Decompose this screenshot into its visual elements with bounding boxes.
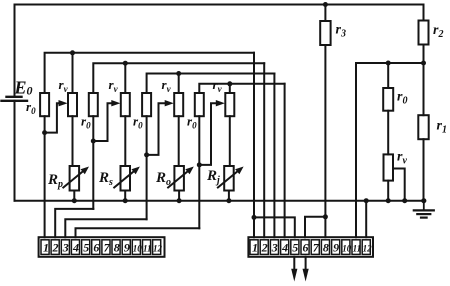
node: ground junction — [421, 198, 426, 203]
node: tap section4 — [197, 162, 202, 167]
wire: r0right to rvright — [387, 111, 389, 155]
wire: rvright bottom — [387, 181, 389, 201]
wire: section1 column to block1 cell1 — [44, 133, 46, 238]
battery E0 short bar — [7, 96, 22, 98]
svg-text:8: 8 — [323, 241, 329, 255]
wire: r1 top — [423, 63, 425, 115]
resistor Ro — [174, 166, 184, 191]
arrow: Rj variable — [218, 170, 239, 188]
wire: rv2 bottom to Rs — [124, 116, 126, 166]
wire: block2 cell3 drop — [273, 74, 275, 238]
arrow: Rp variable — [63, 170, 84, 188]
svg-text:r3: r3 — [336, 23, 346, 40]
wire: rv2 top — [124, 63, 126, 93]
svg-text:10: 10 — [342, 244, 352, 254]
svg-text:Ro: Ro — [155, 170, 171, 188]
resistor r1 — [418, 115, 428, 139]
node: Rs-rail — [123, 198, 128, 203]
node: tap section3 — [144, 152, 149, 157]
arrow: wiper section3 — [165, 100, 174, 106]
resistor r0 section1 — [40, 93, 49, 116]
wire: top rail — [15, 4, 424, 6]
svg-text:4: 4 — [281, 241, 288, 255]
wire: block2 cell4 drop — [284, 84, 286, 237]
wire: battery column upper — [14, 5, 16, 96]
resistor r0 right — [383, 88, 393, 111]
wire: rv3 bottom to Ro — [178, 116, 180, 166]
wire: r3 bottom long drop — [324, 45, 326, 237]
svg-text:5: 5 — [292, 241, 298, 255]
node: block2 cell12 rail junction — [364, 198, 369, 203]
wire: tap section2 riser — [93, 103, 113, 141]
wire: section4 column down — [198, 165, 200, 228]
wire: rv3 top — [178, 74, 180, 94]
wire: right horizontal — [356, 62, 424, 64]
node: r3 cell6 branch — [323, 214, 328, 219]
wire: tap section3 riser — [147, 103, 167, 155]
terminal block 2 outline — [248, 237, 373, 257]
terminal block 2 cells — [250, 240, 370, 255]
wire: feed 2 horizontal — [93, 63, 264, 93]
wire: r0right top — [387, 63, 389, 88]
node: tap section2 — [91, 139, 96, 144]
wire: block1 cell4 jog — [76, 228, 200, 237]
svg-text:3: 3 — [271, 241, 278, 255]
numbers block2 — [252, 241, 372, 255]
svg-text:7: 7 — [313, 241, 320, 255]
wire: feed 1 horizontal — [45, 53, 254, 93]
svg-text:7: 7 — [104, 241, 111, 255]
wire: feed 3 horizontal — [147, 74, 275, 94]
wire: Rp bottom — [73, 191, 75, 201]
wire: section3 column down — [146, 155, 148, 219]
svg-text:rv: rv — [162, 77, 172, 94]
wire: section2 column down — [92, 141, 94, 209]
resistor rv section1 — [68, 93, 77, 116]
node: Rj-rail — [226, 198, 231, 203]
resistor rv section3 — [174, 93, 183, 116]
svg-text:r1: r1 — [437, 119, 447, 136]
wire: rv4 top — [229, 84, 231, 93]
wire: block2 cell12 drop — [365, 201, 367, 238]
svg-text:Rp: Rp — [47, 172, 63, 190]
svg-text:12: 12 — [363, 244, 373, 254]
node: r2-r1 junction — [421, 61, 426, 66]
wire: Rs bottom — [124, 191, 126, 201]
wire: rv1 bottom to Rp — [72, 116, 74, 166]
svg-text:rv: rv — [213, 77, 223, 94]
svg-text:10: 10 — [133, 244, 143, 254]
arrow: wiper section2 — [111, 100, 120, 106]
wire: tap section1 riser — [45, 103, 61, 132]
node: tap section1 — [42, 130, 47, 135]
svg-text:rv: rv — [109, 77, 119, 94]
wire: battery column lower — [14, 101, 16, 201]
resistor Rj — [224, 166, 234, 191]
resistor r0 section4 — [195, 93, 204, 116]
svg-text:r2: r2 — [433, 23, 443, 40]
resistor Rp — [70, 166, 80, 191]
svg-text:Rs: Rs — [98, 170, 113, 188]
svg-text:1: 1 — [252, 241, 258, 255]
wire: r3 top — [324, 5, 326, 22]
node: block2 cell1 branch — [252, 215, 257, 220]
arrow: wiper section4 — [216, 100, 225, 106]
arrow: wiper section1 — [59, 100, 68, 106]
resistor r3 — [320, 21, 330, 45]
svg-text:4: 4 — [72, 241, 79, 255]
svg-text:6: 6 — [303, 241, 309, 255]
wire: Rj bottom — [228, 191, 230, 201]
resistor r2 — [419, 21, 429, 45]
wire: branch to block2 cell5 — [254, 217, 295, 237]
svg-text:2: 2 — [52, 241, 59, 255]
svg-text:rv: rv — [59, 77, 69, 94]
node: rvright tap-rail — [402, 198, 407, 203]
svg-text:r0: r0 — [397, 90, 407, 107]
svg-text:E0: E0 — [14, 78, 33, 98]
wire: tap section4 riser — [199, 103, 218, 165]
wire: rv4 bottom to Rj — [229, 116, 231, 166]
node: feed3-rv3 junction — [176, 71, 181, 76]
node: feed2-rv2 junction — [123, 61, 128, 66]
wire: r0-3 bottom to tap node — [146, 116, 148, 155]
wire: Ro bottom — [178, 191, 180, 201]
battery E0 long bar — [2, 100, 28, 102]
svg-text:5: 5 — [83, 241, 89, 255]
arrow: output below block2 cell5 — [293, 257, 295, 270]
arrow: Rs variable — [114, 170, 135, 188]
resistor rv right — [384, 154, 394, 180]
node: r0right top junction — [386, 61, 391, 66]
wire: block1 cell3 jog — [65, 219, 146, 237]
wire: branch to block2 cell6 — [305, 217, 325, 237]
svg-text:3: 3 — [62, 241, 69, 255]
node: r3 top rail junction — [323, 2, 328, 7]
resistor Rs — [121, 166, 131, 191]
wire: r1 bottom — [423, 139, 425, 201]
node: feed1-rv1 junction — [70, 50, 75, 55]
wire: r0-4 bottom to tap node — [198, 116, 200, 165]
resistor rv section2 — [121, 93, 130, 116]
svg-text:r0: r0 — [26, 99, 36, 116]
svg-text:8: 8 — [114, 241, 120, 255]
wire: r0-1 bottom to tap node — [44, 116, 46, 132]
wire: rv1 top — [72, 53, 74, 93]
wire: block1 cell2 jog — [55, 209, 93, 237]
arrow: Ro variable — [168, 170, 189, 188]
svg-text:Rj: Rj — [206, 168, 220, 186]
svg-text:11: 11 — [143, 244, 152, 254]
wire: block2 cell11 drop — [355, 63, 357, 237]
resistor r0 section2 — [89, 93, 98, 116]
wire: r2 top — [423, 5, 425, 21]
wire: feed 4 horizontal — [199, 84, 284, 93]
node: Rp-rail — [72, 198, 77, 203]
node: rvright-rail — [386, 198, 391, 203]
svg-text:12: 12 — [153, 244, 163, 254]
terminal block 1 cells — [41, 240, 161, 255]
terminal block 1 outline — [39, 237, 165, 257]
node: feed4-rv4 junction — [227, 81, 232, 86]
wire: bottom rail — [15, 200, 425, 202]
resistor rv section4 — [225, 93, 234, 116]
svg-text:6: 6 — [93, 241, 99, 255]
svg-text:1: 1 — [43, 241, 49, 255]
resistor r0 section3 — [142, 93, 151, 116]
wire: r0-2 bottom to tap node — [92, 116, 94, 141]
ground — [423, 201, 425, 210]
svg-text:9: 9 — [333, 241, 339, 255]
svg-text:2: 2 — [261, 241, 268, 255]
arrow: output below block2 cell6 — [305, 257, 307, 270]
node: Ro-rail — [177, 198, 182, 203]
numbers block1 — [43, 241, 163, 255]
wire: rvright tap — [393, 169, 405, 201]
svg-text:rv: rv — [397, 150, 407, 167]
svg-text:9: 9 — [124, 241, 130, 255]
wire: block2 cell1 drop — [253, 53, 255, 237]
svg-text:11: 11 — [353, 244, 362, 254]
wire: r2 bottom to mid junction — [423, 45, 425, 64]
wire: block2 cell2 drop — [263, 63, 265, 237]
